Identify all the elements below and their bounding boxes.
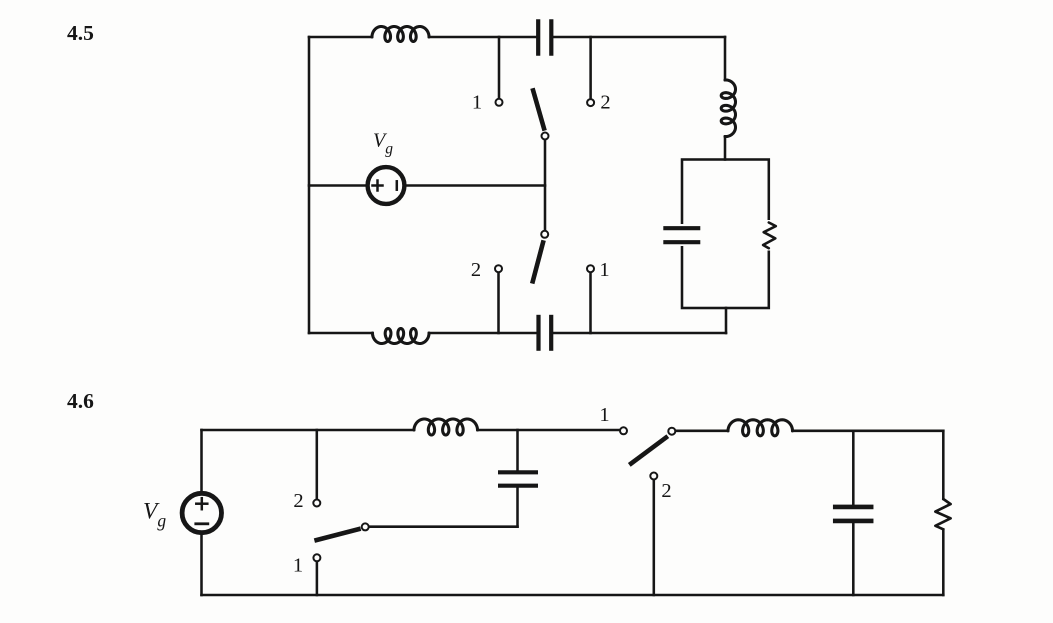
svg-text:2: 2 bbox=[661, 480, 671, 502]
svg-text:1: 1 bbox=[599, 404, 609, 426]
svg-text:2: 2 bbox=[600, 92, 610, 114]
svg-text:1: 1 bbox=[472, 92, 482, 114]
svg-text:2: 2 bbox=[471, 259, 481, 281]
svg-text:4.5: 4.5 bbox=[67, 21, 94, 45]
svg-text:4.6: 4.6 bbox=[67, 389, 94, 413]
svg-text:2: 2 bbox=[293, 490, 303, 512]
svg-text:1: 1 bbox=[599, 259, 609, 281]
svg-text:1: 1 bbox=[293, 555, 303, 577]
